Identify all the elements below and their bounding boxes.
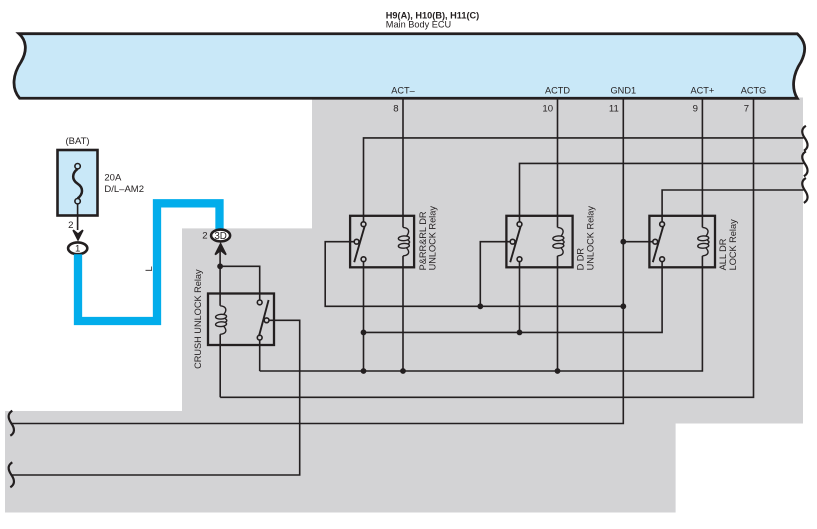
D DR relay switch [510, 222, 522, 262]
wire CRUSH relay switch contact down to bus [259, 340, 261, 371]
svg-text:L: L [144, 266, 155, 272]
D DR relay coil [553, 227, 564, 256]
svg-text:8: 8 [393, 104, 398, 115]
continuation squiggle right 1 [802, 126, 807, 151]
svg-text:20A: 20A [104, 173, 122, 184]
svg-text:10: 10 [542, 104, 553, 115]
junction node D DR common x gnd bus [477, 303, 483, 309]
svg-text:ACT+: ACT+ [691, 85, 715, 95]
junction node ALL DR common x GND1 [620, 239, 626, 245]
svg-text:Main Body ECU: Main Body ECU [386, 20, 451, 30]
junction node at 3D branch [217, 263, 223, 269]
continuation squiggle left 1 [9, 411, 14, 436]
svg-text:ALL DR: ALL DR [718, 238, 728, 270]
svg-text:CRUSH UNLOCK Relay: CRUSH UNLOCK Relay [193, 269, 203, 369]
wire ACT- pin 8 to P&RR&RL relay coil [402, 98, 404, 372]
wire GND1 pin 11 [11, 98, 624, 424]
P&RR&RL relay switch [354, 222, 366, 262]
svg-text:ACTG: ACTG [741, 85, 767, 95]
svg-text:P&RR&RL DR: P&RR&RL DR [418, 211, 428, 270]
junction node P&RR switch x unlock bus [361, 330, 367, 336]
svg-text:D DR: D DR [576, 248, 586, 271]
wire P&RR&RL switch NC contact down to bus [363, 262, 365, 371]
P&RR&RL DR UNLOCK Relay box [350, 216, 414, 267]
junction node ACT- coil x lower bus [400, 368, 406, 374]
continuation squiggle right 3 [802, 178, 807, 203]
junction node P&RR switch x lower bus [361, 368, 367, 374]
svg-text:7: 7 [744, 104, 749, 115]
wire ALL DR relay common to GND1 [623, 241, 653, 243]
svg-text:2: 2 [68, 220, 73, 231]
svg-text:(BAT): (BAT) [65, 136, 89, 147]
wire D DR relay common to GND bus [480, 242, 510, 307]
junction node ACTD coil x lower bus [555, 368, 561, 374]
svg-text:11: 11 [609, 104, 619, 115]
junction node D DR switch x unlock bus [517, 330, 523, 336]
wire ACTD pin 10 to D DR relay coil [557, 98, 559, 372]
connector node 3D [211, 230, 230, 242]
svg-text:UNLOCK Relay: UNLOCK Relay [428, 206, 438, 271]
svg-text:1: 1 [75, 244, 80, 255]
ALL DR relay switch [653, 222, 665, 262]
svg-text:3D: 3D [214, 231, 227, 242]
wire P&RR&RL relay switch contact to right edge [364, 138, 804, 222]
P&RR&RL relay coil [398, 227, 409, 256]
ALL DR LOCK Relay box [649, 216, 715, 267]
svg-text:2: 2 [202, 230, 207, 241]
fuse element symbol [73, 164, 82, 204]
wire ACTG pin 7 to CRUSH relay coil [220, 98, 753, 398]
arrow from relay side into 3D [215, 244, 226, 255]
connector node 1 [68, 242, 87, 254]
svg-text:9: 9 [693, 104, 698, 115]
wire ALL DR switch NC contact to unlock bus [364, 262, 663, 333]
thick wire L (cyan) from connector 1 to connector 3D [78, 203, 220, 321]
fuse D/L-AM2 box [58, 150, 98, 216]
svg-text:UNLOCK Relay: UNLOCK Relay [585, 206, 595, 271]
svg-text:GND1: GND1 [611, 85, 637, 95]
D DR UNLOCK Relay box [506, 216, 572, 267]
arrow into connector 1 [73, 230, 83, 240]
ALL DR relay coil [698, 227, 709, 256]
svg-text:LOCK Relay: LOCK Relay [728, 219, 738, 270]
wire P&RR&RL relay common to GND1 [325, 242, 623, 307]
wire ACT+ pin 9 through ALL DR relay coil to bottom bus [260, 98, 703, 372]
wire D DR switch NC contact down to bus [519, 262, 521, 333]
junction node gnd bus x GND1 [620, 303, 626, 309]
wire D DR relay switch contact to right edge [520, 163, 804, 221]
shaded background region [5, 98, 803, 513]
svg-text:ACT–: ACT– [391, 85, 415, 95]
continuation squiggle right 2 [802, 151, 807, 176]
wire from fuse to connector 1 [77, 204, 79, 230]
wire ALL DR relay switch contact to right edge [662, 190, 803, 222]
CRUSH relay coil [215, 306, 226, 335]
svg-text:D/L–AM2: D/L–AM2 [104, 184, 144, 195]
CRUSH relay switch [257, 300, 269, 340]
wire connector 3D to CRUSH relay [220, 251, 260, 306]
Main Body ECU connector band [14, 34, 805, 99]
wire CRUSH relay common to left edge [11, 320, 300, 475]
CRUSH UNLOCK Relay box [208, 294, 274, 346]
continuation squiggle left 2 [9, 462, 14, 487]
svg-text:ACTD: ACTD [545, 85, 570, 95]
